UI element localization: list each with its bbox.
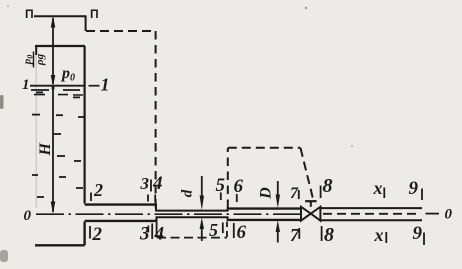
section 9 tick above bbox=[421, 189, 423, 201]
piezometric dashed line inside section 8-9 bbox=[323, 213, 421, 215]
svg-text:2: 2 bbox=[93, 180, 103, 200]
dimension d arrows bbox=[200, 176, 204, 241]
section 5 tick above bbox=[220, 193, 222, 201]
scan speck mid-right bbox=[351, 145, 353, 147]
section 9 tick below bbox=[423, 233, 425, 246]
piezometric dashed line below narrow pipe bbox=[157, 237, 227, 239]
svg-text:x: x bbox=[374, 225, 384, 245]
scan speck top-left bbox=[7, 5, 9, 7]
svg-text:8: 8 bbox=[324, 224, 334, 246]
tank left wall (faint lower part) bbox=[35, 55, 37, 208]
section mark 2 (below pipe): tick bbox=[89, 226, 91, 239]
depth arrow H (shaft from surface to datum 0-0) bbox=[51, 86, 56, 214]
section 7 tick below bbox=[298, 228, 300, 239]
section 3 tick on pipe bbox=[147, 195, 149, 202]
scan speck top bbox=[305, 7, 307, 9]
pipe section 4-5 (diameter d) bottom edge bbox=[156, 216, 228, 218]
section 8 tick below bbox=[321, 226, 323, 241]
section 4 tick on pipe bbox=[154, 195, 156, 202]
svg-text:0: 0 bbox=[24, 208, 32, 224]
dimension D arrows bbox=[276, 181, 280, 243]
head line step down bbox=[85, 16, 87, 31]
svg-text:П: П bbox=[90, 7, 99, 21]
liquid surface main line (section 1-1) bbox=[30, 85, 84, 87]
valve body left triangle bbox=[301, 207, 311, 221]
pipe section 4-5 (diameter d) top edge bbox=[156, 210, 228, 212]
section mark 2 (above pipe): tick bbox=[90, 193, 92, 202]
section 7 tick above bbox=[298, 190, 300, 199]
head line П-П (solid segment) bbox=[34, 15, 87, 17]
svg-text:6: 6 bbox=[237, 222, 247, 243]
surface line 3 bbox=[34, 94, 83, 96]
svg-text:П: П bbox=[25, 7, 34, 21]
valve body right triangle bbox=[311, 207, 321, 221]
pressure head arrow p0/rho-g (up arrowhead at П line) bbox=[51, 16, 56, 87]
arrow junction blob at surface bbox=[52, 86, 55, 90]
pipe section 6-7 (diameter D) top edge bbox=[228, 207, 301, 209]
piezometric drop below pipe at section 4 bbox=[156, 218, 158, 238]
datum line 0-0 (dash-dot through pipe axis) bbox=[36, 213, 302, 215]
piezometric dashed rise below pipe at section 5-6 bbox=[226, 222, 228, 238]
surface line 2 bbox=[31, 89, 80, 91]
tick between 3 and 4 above bbox=[150, 180, 152, 192]
piezometric line: horizontal dashed from П step to section 4 drop bbox=[86, 30, 156, 32]
svg-text:6: 6 bbox=[234, 176, 244, 197]
valve stem bbox=[310, 202, 312, 207]
section 1-1: right dash and label 1 bbox=[89, 85, 100, 87]
svg-text:7: 7 bbox=[290, 185, 299, 202]
svg-text:D: D bbox=[258, 187, 275, 200]
section 6 tick above bbox=[236, 194, 238, 202]
scan smudge left edge bbox=[0, 95, 4, 109]
svg-text:9: 9 bbox=[409, 178, 419, 199]
svg-text:9: 9 bbox=[413, 223, 423, 244]
pipe section 2-3 bottom edge bbox=[85, 220, 156, 222]
tank right wall bbox=[83, 46, 85, 204]
section 5 tick below bbox=[222, 223, 224, 234]
tick before 6 below bbox=[233, 223, 235, 238]
svg-text:0: 0 bbox=[445, 207, 453, 223]
svg-text:x: x bbox=[373, 178, 383, 198]
pipe section 8-9 top edge bbox=[320, 207, 422, 209]
tank bottom shelf bbox=[35, 222, 85, 246]
svg-text:d: d bbox=[180, 189, 196, 197]
svg-text:1: 1 bbox=[22, 77, 30, 93]
pipe section 6-7 (diameter D) bottom edge bbox=[228, 219, 301, 221]
section 3 tick below bbox=[147, 226, 149, 233]
svg-text:2: 2 bbox=[92, 224, 103, 245]
svg-text:4: 4 bbox=[152, 173, 163, 194]
svg-text:H: H bbox=[37, 143, 54, 157]
svg-text:1: 1 bbox=[101, 75, 110, 95]
piezometric line: vertical dashed drop at section 3-4 bbox=[155, 31, 157, 209]
piezometric dashed horizontal over section 6-7 bbox=[228, 147, 301, 149]
scan smudge bottom left bbox=[0, 250, 8, 262]
expansion step at section 5-6 bbox=[227, 208, 229, 222]
section 8 tick above bbox=[320, 186, 322, 199]
pipe section 2-3 top edge bbox=[85, 203, 156, 205]
tick before 4 below bbox=[151, 224, 153, 240]
tank left wall (upper stub) bbox=[35, 46, 37, 55]
svg-text:5: 5 bbox=[209, 220, 218, 240]
contraction step at section 3-4 bbox=[155, 204, 157, 223]
valve handle bar bbox=[305, 200, 316, 202]
liquid fill dashes bbox=[32, 92, 85, 197]
x tick below bbox=[385, 232, 387, 243]
pipe section 8-9 bottom edge bbox=[320, 219, 422, 221]
datum line 0 stub at right bbox=[426, 213, 440, 215]
piezometric dashed slope down to valve bbox=[301, 148, 314, 202]
svg-text:4: 4 bbox=[154, 224, 165, 245]
label p0/rho-g (rotated fraction) bbox=[22, 52, 47, 68]
svg-text:3: 3 bbox=[140, 174, 150, 193]
piezometric dashed rise above pipe at section 5-6 bbox=[227, 148, 229, 208]
svg-text:8: 8 bbox=[323, 175, 333, 197]
tank top edge bbox=[35, 45, 85, 47]
x tick above bbox=[383, 188, 385, 199]
